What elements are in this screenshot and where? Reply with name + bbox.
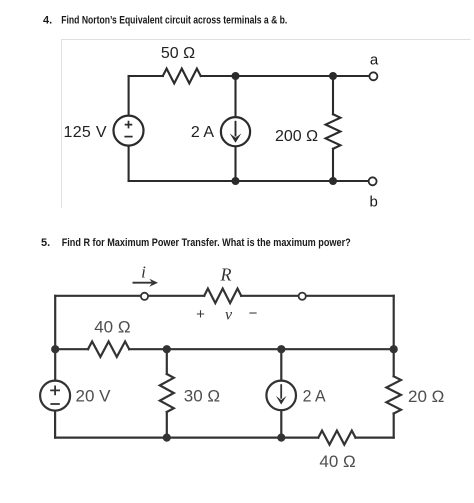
wire: fig2 left column mid-to-source	[54, 349, 56, 381]
resistor 40 ohm middle	[88, 342, 129, 357]
terminal a open circle	[369, 72, 377, 80]
node: fig1 bottom node at 200 ohm column	[329, 177, 337, 185]
svg-text:200 Ω: 200 Ω	[275, 128, 318, 145]
svg-text:R: R	[220, 265, 232, 285]
svg-text:+: +	[196, 306, 205, 323]
wire: fig2 right column 20ohm-to-bottom	[393, 414, 395, 438]
wire: fig2 bottom rail right segment	[356, 437, 394, 439]
resistor 50 ohm	[163, 69, 201, 84]
resistor 200 ohm	[326, 114, 341, 149]
wire: fig1 bottom rail to terminal b	[129, 180, 369, 182]
voltage source 20V minus sign	[50, 403, 59, 405]
terminal open circle left on fig2 top rail	[141, 293, 148, 300]
voltage source 125V minus sign	[124, 136, 132, 138]
svg-text:20 V: 20 V	[76, 386, 112, 405]
svg-text:2 A: 2 A	[303, 387, 327, 406]
wire: fig2 30 ohm column lower	[166, 412, 168, 438]
svg-text:30 Ω: 30 Ω	[184, 387, 220, 406]
wire: fig2 right column top-to-mid	[393, 296, 395, 349]
terminal open circle right on fig2 top rail	[299, 293, 306, 300]
current arrow i	[133, 279, 159, 287]
voltage source 125V circle	[114, 116, 144, 146]
svg-text:b: b	[370, 194, 378, 211]
wire: fig2 top rail left of R	[55, 295, 204, 297]
svg-text:20 Ω: 20 Ω	[408, 387, 444, 406]
wire: fig2 30 ohm column upper	[166, 349, 168, 374]
node: fig1 bottom node at 2A column	[232, 177, 240, 185]
current source 2A fig1 arrow	[230, 121, 242, 143]
svg-text:v: v	[225, 307, 233, 324]
svg-text:125 V: 125 V	[64, 124, 107, 141]
wire: fig2 left column source-to-bottom	[54, 411, 56, 438]
node: fig2 mid rail left	[51, 345, 59, 353]
node: fig1 top node at 200 ohm column	[329, 72, 337, 80]
wire: fig1 2A source column upper	[234, 76, 236, 117]
node: fig2 mid rail at 2A	[277, 345, 285, 353]
voltage source 20V circle	[40, 381, 70, 411]
svg-text:Find R for Maximum Power Trans: Find R for Maximum Power Transfer. What …	[62, 237, 351, 249]
wire: fig2 top rail right of R	[241, 295, 394, 297]
wire: fig1 200 ohm column upper	[332, 76, 334, 114]
resistor 30 ohm	[160, 374, 174, 412]
wire: fig2 right column mid-to-20ohm	[393, 349, 395, 376]
wire: fig2 bottom rail left segment	[55, 437, 318, 439]
wire: fig2 2A column upper	[280, 349, 282, 381]
voltage source 125V plus sign	[125, 121, 133, 129]
svg-text:i: i	[141, 263, 146, 282]
node: fig2 mid rail at 30 ohm	[163, 345, 171, 353]
svg-text:a: a	[370, 52, 379, 69]
terminal b open circle	[369, 177, 377, 185]
svg-text:4.: 4.	[43, 15, 52, 27]
svg-text:2 A: 2 A	[191, 124, 214, 141]
wire: fig1 2A source column lower	[234, 146, 236, 181]
svg-text:40 Ω: 40 Ω	[319, 452, 355, 471]
svg-text:−: −	[249, 305, 258, 322]
wire: fig2 2A column lower	[280, 410, 282, 438]
wire: fig2 left column top-to-mid	[54, 296, 56, 349]
node: fig2 mid rail right	[390, 345, 398, 353]
resistor 40 ohm bottom	[318, 431, 355, 445]
wire: fig2 middle rail left segment	[55, 348, 88, 350]
svg-text:Find Norton’s Equivalent circu: Find Norton’s Equivalent circuit across …	[61, 15, 287, 27]
resistor R	[204, 289, 241, 304]
resistor 20 ohm	[386, 376, 401, 413]
voltage source 20V plus sign	[50, 386, 60, 396]
wire: fig1 left branch upper	[128, 76, 130, 116]
current source 2A fig2 circle	[266, 381, 296, 411]
wire: fig1 left branch lower	[128, 146, 130, 181]
current source 2A fig1 circle	[221, 117, 250, 146]
node: fig2 bottom rail at 2A	[277, 434, 285, 442]
wire: fig1 200 ohm column lower	[332, 149, 334, 181]
svg-text:50 Ω: 50 Ω	[161, 45, 195, 62]
node: fig1 top node at 2A column	[232, 72, 240, 80]
current source 2A fig2 arrow	[276, 384, 287, 404]
node: fig2 bottom rail at 30 ohm	[163, 434, 171, 442]
wire: fig1 top rail right segment to terminal a	[201, 75, 370, 77]
wire: fig2 middle rail right segment	[129, 348, 394, 350]
svg-text:5.: 5.	[41, 237, 50, 249]
wire: fig1 top rail left segment	[129, 75, 163, 77]
svg-text:40 Ω: 40 Ω	[94, 317, 130, 336]
